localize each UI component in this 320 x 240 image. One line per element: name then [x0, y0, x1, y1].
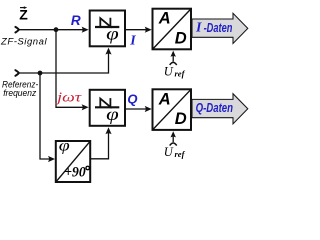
svg-text:U: U — [164, 145, 174, 159]
svg-text:D: D — [175, 110, 187, 128]
svg-text:-Daten: -Daten — [204, 20, 233, 35]
svg-text:D: D — [175, 29, 187, 47]
svg-text:Q: Q — [127, 92, 137, 107]
svg-text:Z: Z — [19, 7, 28, 23]
svg-text:I: I — [195, 21, 202, 36]
svg-text:jωτ: jωτ — [55, 91, 83, 106]
svg-text:ZF-Signal: ZF-Signal — [0, 36, 47, 47]
svg-text:φ: φ — [106, 23, 119, 43]
svg-text:I: I — [129, 33, 136, 48]
svg-text:ref: ref — [175, 68, 186, 78]
svg-text:φ: φ — [106, 104, 119, 124]
svg-text:A: A — [158, 90, 171, 108]
svg-text:+90: +90 — [64, 165, 86, 181]
svg-text:frequenz: frequenz — [3, 88, 36, 99]
svg-text:φ: φ — [59, 138, 71, 155]
svg-text:Q-Daten: Q-Daten — [196, 100, 233, 115]
svg-text:ref: ref — [175, 149, 186, 159]
svg-text:A: A — [158, 10, 171, 28]
svg-text:R: R — [71, 13, 81, 28]
svg-text:U: U — [164, 65, 174, 79]
